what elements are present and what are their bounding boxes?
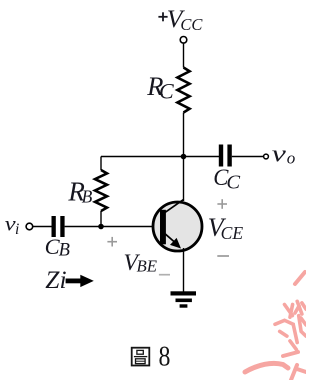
wire CC to vo: [232, 156, 264, 158]
svg-text:CC: CC: [180, 15, 203, 34]
label RB: [67, 177, 92, 207]
label vo: [272, 141, 296, 168]
ground: [171, 291, 197, 307]
minus sign VCE: [217, 255, 229, 257]
svg-text:C: C: [226, 172, 240, 194]
terminal vi: [26, 223, 33, 230]
svg-text:v: v: [272, 141, 287, 167]
label CC: [213, 165, 240, 194]
terminal +VCC: [180, 37, 187, 44]
svg-text:i: i: [15, 221, 19, 238]
wire RB to base node: [100, 211, 102, 227]
label VBE: [124, 250, 158, 276]
svg-text:B: B: [82, 186, 93, 206]
terminal vo: [264, 154, 269, 159]
wire RC to collector node: [183, 113, 185, 157]
wire collector horizontal: [101, 156, 219, 158]
watermark: [245, 272, 306, 380]
label CB: [45, 234, 70, 261]
capacitor CB: [52, 216, 65, 237]
svg-text:Zi: Zi: [45, 265, 66, 294]
plus sign VCE: [217, 199, 227, 209]
wire VCC to RC: [183, 44, 185, 68]
svg-text:C: C: [159, 79, 174, 104]
minus sign VBE: [159, 274, 170, 276]
resistor RB: [95, 170, 107, 211]
svg-text:8: 8: [159, 341, 171, 372]
wire vi to CB: [33, 226, 52, 228]
node collector junction: [181, 154, 187, 160]
wire node to collector: [183, 157, 185, 202]
capacitor CC: [219, 145, 232, 167]
wire RB top: [100, 157, 102, 171]
watermark stroke cluster: [275, 301, 306, 349]
svg-text:CE: CE: [221, 223, 244, 243]
plus sign VBE: [107, 237, 117, 247]
svg-text:BE: BE: [137, 257, 158, 276]
arrow Zi: [66, 275, 94, 287]
wire emitter to ground: [183, 248, 185, 292]
resistor RC: [177, 68, 189, 113]
wire base horizontal: [65, 226, 161, 228]
svg-text:B: B: [59, 241, 70, 261]
svg-text:v: v: [5, 212, 16, 235]
transistor Q1: [153, 199, 202, 251]
svg-text:o: o: [287, 149, 296, 168]
label VCE: [208, 213, 244, 243]
label vi: [5, 212, 20, 238]
label RC: [146, 71, 174, 104]
label +VCC: [158, 4, 203, 34]
caption 圖 8: [132, 348, 150, 366]
node base junction: [98, 224, 104, 230]
